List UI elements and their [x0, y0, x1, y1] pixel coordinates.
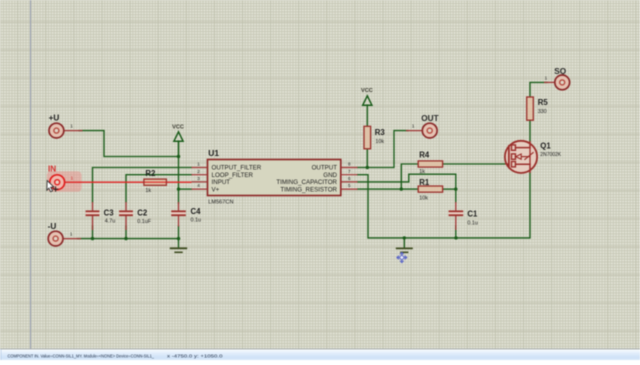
R1 body: [418, 186, 442, 192]
junction node C1/rail: [454, 236, 457, 239]
pin 7 stub: [341, 169, 358, 175]
selected wire over R2: [145, 181, 167, 183]
junction node ground2/rail: [403, 236, 406, 239]
junction node R3/pin8: [366, 166, 369, 169]
svg-text:R3: R3: [375, 128, 386, 137]
wire C3 bottom to ground rail: [92, 226, 94, 239]
resistor R2: [144, 169, 167, 194]
wire C1 bottom to rail: [455, 226, 457, 238]
capacitor C4: [171, 202, 201, 227]
svg-text:R4: R4: [419, 150, 430, 159]
op IC U1 LM567CN: [192, 148, 358, 206]
wire R1 right to C1 node: [443, 188, 456, 190]
resistor R5: [527, 97, 549, 120]
capacitor C2: [119, 202, 152, 230]
source lead: [515, 164, 530, 173]
pin 2 stub: [192, 169, 208, 175]
svg-text:x -4750.0 y: +1050.0: x -4750.0 y: +1050.0: [167, 353, 223, 359]
svg-text:1: 1: [412, 124, 415, 129]
svg-text:TIMING_RESISTOR: TIMING_RESISTOR: [280, 186, 337, 193]
drain lead: [515, 141, 530, 148]
transistor Q1 2N7002K: [505, 141, 562, 173]
body slash: [524, 152, 533, 160]
wire -U ground rail: [78, 238, 179, 240]
svg-text:7: 7: [348, 169, 351, 174]
wire SQ to R5 top: [530, 82, 547, 97]
gate lead: [505, 163, 509, 165]
pin names: [212, 165, 338, 194]
wire pin2 LOOP_FILTER to C2: [126, 175, 192, 202]
body arrowhead: [516, 154, 522, 159]
junction node R1/C1: [454, 187, 457, 190]
wire R4 left to pin5 net: [401, 164, 418, 189]
origin marker (blue): [397, 252, 407, 262]
junction node R4/pin5: [400, 187, 403, 190]
power symbol VCC (right): [361, 88, 373, 105]
svg-text:8: 8: [348, 162, 351, 167]
pin 5 stub: [341, 183, 358, 189]
capacitor C1: [449, 202, 478, 230]
wire +U to VCC rail: [79, 131, 179, 157]
svg-text:-U: -U: [48, 222, 57, 231]
svg-text:0.1uF: 0.1uF: [137, 219, 151, 225]
svg-text:10k: 10k: [419, 196, 428, 202]
connector +U: [49, 114, 83, 138]
svg-text:R5: R5: [538, 98, 549, 107]
R4 body: [418, 161, 442, 167]
junction node C2/rail: [124, 237, 127, 240]
connector SQ: [544, 67, 570, 90]
junction node +U/VCC: [177, 155, 180, 158]
svg-text:IN: IN: [48, 164, 56, 173]
svg-text:C3: C3: [104, 209, 115, 218]
svg-text:2: 2: [197, 169, 200, 174]
wire C2 bottom to ground rail: [125, 226, 127, 239]
gate bar: [508, 145, 510, 168]
svg-text:1: 1: [197, 162, 200, 167]
body arrow tail: [521, 156, 530, 158]
svg-text:COMPONENT IN. Value=CONN-SIL1_: COMPONENT IN. Value=CONN-SIL1_MY. Module…: [8, 353, 155, 359]
wire pin7 GND to bottom rail: [358, 173, 531, 238]
svg-text:0.1u: 0.1u: [191, 218, 202, 224]
wire pin8 OUTPUT to R3/OUT: [358, 131, 408, 168]
sheet border line: [30, 0, 32, 350]
svg-text:1: 1: [545, 76, 548, 81]
channel squares: [512, 145, 516, 150]
svg-text:OUT: OUT: [421, 114, 438, 123]
wire pin5 TIMING_RESISTOR to R1: [358, 188, 419, 190]
svg-text:4.7u: 4.7u: [105, 219, 116, 225]
svg-text:1: 1: [70, 232, 73, 237]
wire IN to R2 to pin3 (selected, red): [79, 181, 192, 183]
svg-text:+U: +U: [49, 114, 60, 123]
power symbol VCC (left): [172, 124, 184, 156]
svg-text:C4: C4: [191, 207, 202, 216]
R2 body: [144, 179, 167, 185]
svg-text:INPUT: INPUT: [212, 179, 231, 186]
pin 6 stub: [341, 176, 358, 182]
R5 body: [527, 97, 534, 120]
pin 8 stub: [341, 162, 358, 168]
svg-text:C1: C1: [467, 210, 478, 219]
capacitor C3: [86, 202, 116, 230]
wire C4 bottom to ground rail: [178, 226, 180, 239]
connector OUT: [406, 114, 439, 138]
svg-text:C2: C2: [137, 209, 148, 218]
resistor R3: [364, 126, 385, 149]
svg-text:LOOP_FILTER: LOOP_FILTER: [212, 172, 254, 179]
resistor R1: [418, 178, 442, 202]
svg-text:TIMING_CAPACITOR: TIMING_CAPACITOR: [276, 179, 337, 186]
resistor R4: [418, 150, 442, 175]
wire pin1 OUTPUT_FILTER to C3: [93, 168, 192, 203]
mouse cursor: [47, 181, 59, 192]
svg-text:1k: 1k: [145, 188, 151, 194]
pin 1 stub: [192, 162, 208, 168]
connector IN (selected): [48, 164, 80, 189]
wire R5 bottom to Q1 drain: [529, 120, 531, 141]
junction node C4/ground: [177, 237, 180, 240]
svg-text:10k: 10k: [375, 139, 384, 145]
wire R4 right to Q1 gate: [443, 163, 505, 165]
svg-text:1: 1: [70, 124, 73, 129]
status bar: [0, 349, 640, 360]
svg-text:4: 4: [197, 183, 200, 188]
svg-text:2N7002K: 2N7002K: [540, 152, 562, 158]
wire pin6 TIMING_CAPACITOR to C1: [358, 174, 456, 202]
svg-text:6: 6: [348, 176, 351, 181]
svg-text:OUTPUT: OUTPUT: [312, 165, 338, 172]
svg-text:5: 5: [348, 183, 351, 188]
pin 3 stub: [192, 176, 208, 182]
svg-text:Q1: Q1: [540, 141, 551, 150]
svg-text:OUTPUT_FILTER: OUTPUT_FILTER: [212, 165, 262, 172]
R3 body: [364, 126, 371, 149]
junction node C3/rail: [91, 237, 94, 240]
wire V+ pin4: [179, 188, 192, 190]
ground (left, under C4): [170, 239, 187, 253]
svg-text:1k: 1k: [419, 169, 425, 175]
svg-text:3: 3: [197, 176, 200, 181]
wire R3 top to VCC2: [366, 105, 368, 126]
wire R3 bottom to pin8 net: [366, 149, 368, 168]
pin 4 stub: [192, 183, 208, 189]
svg-text:U1: U1: [208, 148, 219, 158]
svg-text:0.1u: 0.1u: [467, 220, 478, 226]
svg-text:VCC: VCC: [361, 88, 373, 94]
svg-text:1: 1: [71, 175, 74, 180]
ground (right): [396, 238, 413, 252]
svg-text:V+: V+: [212, 186, 220, 193]
body vertical: [529, 148, 531, 165]
connector -U: [48, 222, 81, 246]
selection halo around IN: [47, 171, 82, 192]
svg-text:R2: R2: [145, 169, 156, 178]
wire VCC vertical rail to V+ and C4: [178, 141, 180, 203]
junction node V+: [177, 187, 180, 190]
svg-text:LM567CN: LM567CN: [208, 199, 233, 205]
svg-text:VCC: VCC: [172, 124, 184, 130]
svg-text:330: 330: [538, 109, 547, 115]
svg-text:GND: GND: [323, 172, 337, 179]
